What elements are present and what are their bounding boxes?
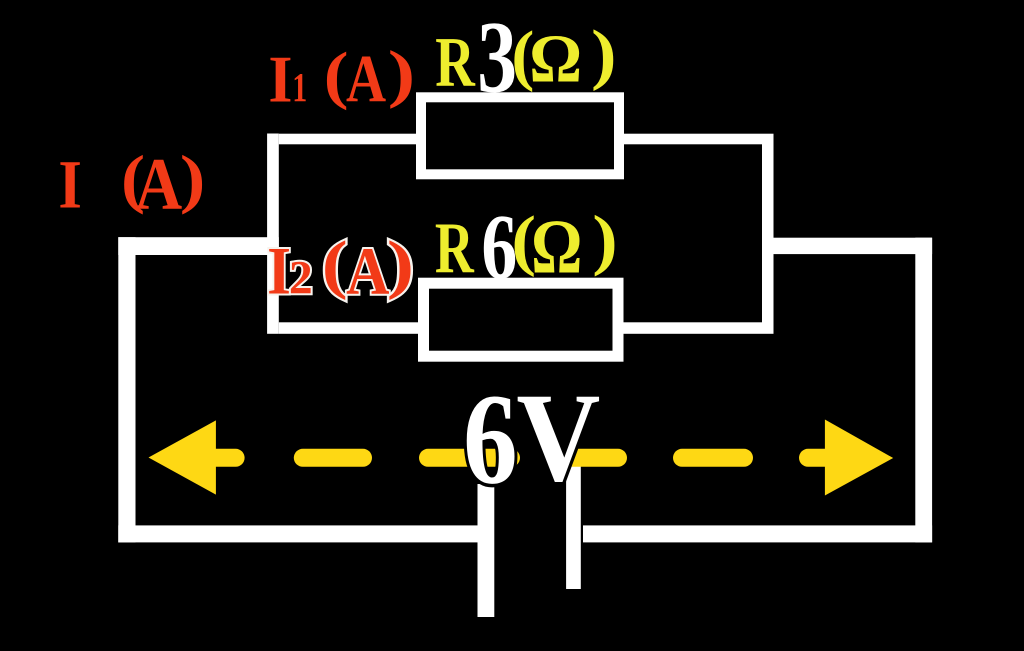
- battery left plate (long): [478, 484, 495, 617]
- svg-text:I: I: [58, 147, 82, 223]
- svg-text:Ω: Ω: [529, 21, 582, 97]
- svg-text:R: R: [435, 207, 475, 288]
- wire: outer left vertical: [118, 237, 135, 542]
- dash 2: [303, 449, 363, 467]
- svg-text:2: 2: [289, 252, 313, 304]
- current direction dashed line: [205, 449, 830, 467]
- wire: right junction bar vertical: [762, 134, 774, 334]
- svg-text:1: 1: [292, 64, 307, 110]
- right arrowhead: [825, 420, 893, 496]
- svg-text:A: A: [135, 144, 183, 226]
- svg-text:): ): [180, 143, 206, 216]
- wire: bottom left segment: [118, 525, 477, 542]
- svg-text:R: R: [435, 24, 475, 102]
- svg-text:A: A: [346, 41, 386, 117]
- battery right plate (short): [566, 462, 581, 589]
- svg-text:A: A: [346, 233, 389, 309]
- svg-text:6: 6: [463, 368, 518, 512]
- wire: bottom right segment: [583, 525, 932, 542]
- svg-text:I: I: [267, 233, 291, 308]
- resistor R=3 ohm box: [421, 97, 619, 174]
- wire: top branch left: [279, 134, 416, 145]
- wire: outer right vertical: [915, 238, 932, 543]
- left arrowhead: [149, 420, 216, 494]
- svg-text:): ): [387, 229, 414, 301]
- dash 3: [428, 449, 511, 467]
- svg-text:I: I: [268, 43, 292, 117]
- dash left tail: [205, 449, 236, 467]
- resistor R=6 ohm box: [424, 283, 619, 356]
- wire: bottom branch left: [279, 322, 418, 334]
- wire: top-right stub horizontal: [762, 238, 932, 254]
- svg-text:): ): [388, 38, 416, 109]
- wire: bottom branch right: [624, 322, 763, 334]
- wire: top-left stub horizontal: [118, 237, 278, 255]
- svg-text:Ω: Ω: [531, 204, 582, 290]
- dash right tail: [808, 449, 830, 467]
- svg-text:(: (: [322, 229, 348, 301]
- dash 4: [554, 449, 618, 467]
- dash 5: [682, 449, 744, 467]
- wire: left junction bar vertical: [267, 134, 279, 334]
- wire: top branch right: [624, 134, 762, 145]
- svg-text:): ): [591, 16, 617, 91]
- svg-text:): ): [592, 202, 618, 277]
- svg-text:(: (: [324, 40, 349, 112]
- svg-text:V: V: [516, 366, 600, 508]
